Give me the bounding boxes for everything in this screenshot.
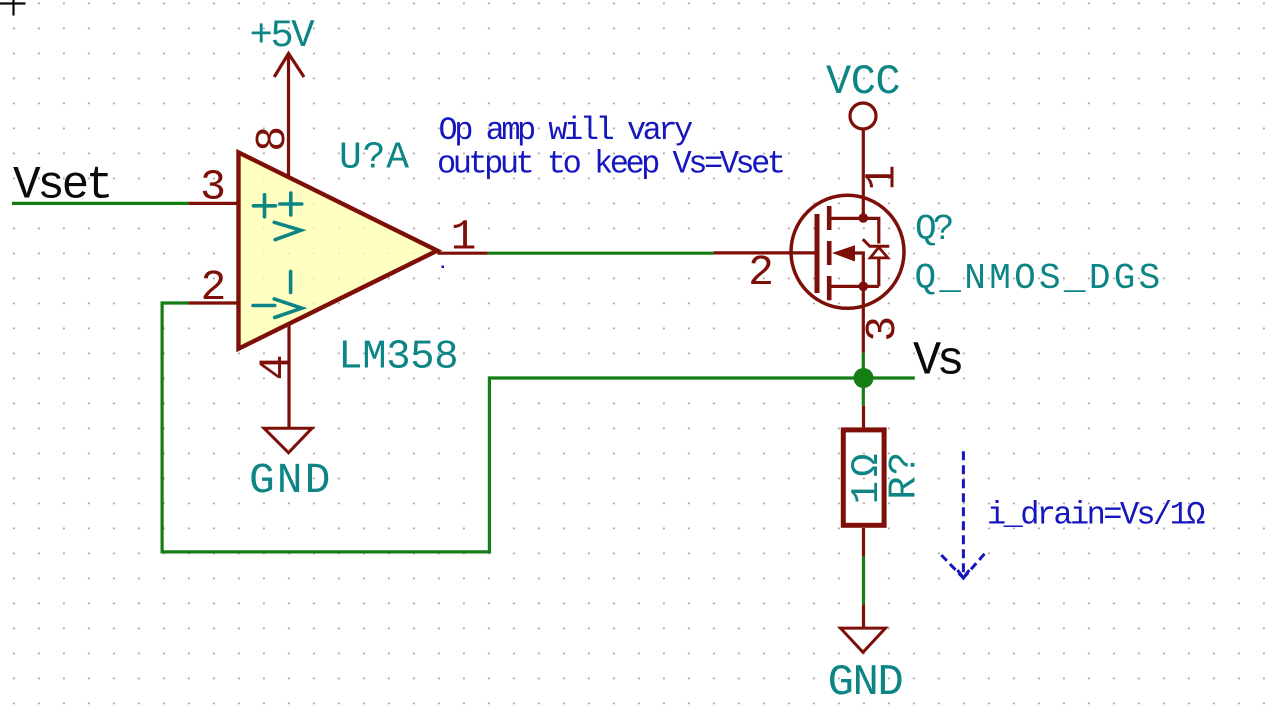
svg-text:Vset: Vset: [13, 159, 110, 211]
svg-text:Vs: Vs: [913, 336, 962, 389]
svg-text:3: 3: [858, 316, 907, 342]
svg-text:U?A: U?A: [339, 137, 410, 180]
svg-text:VCC: VCC: [826, 58, 900, 106]
svg-text:3: 3: [200, 162, 226, 211]
svg-text:i_drain=Vs/1Ω: i_drain=Vs/1Ω: [987, 497, 1205, 534]
svg-text:Q_NMOS_DGS: Q_NMOS_DGS: [915, 258, 1164, 299]
svg-text:4: 4: [251, 354, 300, 380]
svg-text:GND: GND: [249, 456, 332, 505]
svg-text:LM358: LM358: [338, 335, 458, 381]
svg-text:GND: GND: [828, 658, 903, 708]
svg-text:R: R: [883, 476, 927, 499]
svg-text:?: ?: [883, 452, 927, 475]
svg-text:2: 2: [200, 263, 226, 312]
svg-text:+5V: +5V: [250, 14, 316, 58]
svg-text:Q?: Q?: [915, 209, 952, 250]
svg-text:2: 2: [748, 248, 774, 297]
svg-text:1: 1: [451, 213, 477, 262]
svg-text:Op amp will vary: Op amp will vary: [439, 112, 694, 149]
svg-text:8: 8: [248, 126, 297, 152]
svg-text:output to keep Vs=Vset: output to keep Vs=Vset: [437, 145, 783, 182]
svg-text:1: 1: [858, 165, 907, 191]
